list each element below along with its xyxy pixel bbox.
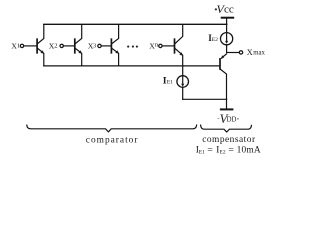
label +Vcc bbox=[215, 8, 217, 10]
base bar Xn bbox=[174, 39, 176, 53]
source circle IE1 bbox=[177, 76, 189, 88]
node input terminal Xn bbox=[159, 44, 162, 47]
wire emitter rail to IE1 bbox=[182, 66, 184, 76]
power +Vcc bar bbox=[222, 17, 234, 19]
wire IE1 to bottom rail bbox=[182, 87, 184, 99]
arrow inside IE2 bbox=[226, 34, 228, 42]
wire bottom rail to -VDD bbox=[183, 98, 227, 100]
wire top collector rail bbox=[44, 23, 227, 25]
svg-text:max: max bbox=[253, 49, 265, 56]
wire +Vcc feed bbox=[226, 19, 228, 33]
transistor Q2 output PNP bbox=[220, 54, 227, 109]
wire common emitter rail bbox=[44, 65, 220, 67]
svg-text:X: X bbox=[247, 48, 253, 57]
collector lead X2 bbox=[75, 25, 81, 44]
brace compensator bbox=[201, 125, 252, 132]
wire base lead X1 bbox=[24, 45, 37, 47]
svg-text:E2: E2 bbox=[212, 37, 218, 43]
emitter lead X2 bbox=[75, 48, 81, 66]
transistor X1 bbox=[20, 25, 44, 66]
svg-text:2: 2 bbox=[54, 42, 57, 49]
node input terminal X3 bbox=[98, 44, 101, 47]
base bar Q2 bbox=[219, 59, 221, 69]
wire base lead Xn bbox=[162, 45, 174, 47]
emitter arrow Xn bbox=[179, 52, 183, 55]
svg-text:10mA: 10mA bbox=[237, 146, 261, 156]
emitter lead X3 bbox=[112, 48, 119, 66]
emitter lead Q2 bbox=[221, 54, 226, 58]
arrow inside IE1 bbox=[182, 77, 184, 85]
svg-text:E1: E1 bbox=[167, 80, 173, 86]
wire base lead X3 bbox=[101, 45, 111, 47]
node input terminal X2 bbox=[60, 44, 63, 47]
collector lead X1 bbox=[38, 25, 44, 44]
svg-text:comparator: comparator bbox=[86, 135, 139, 145]
svg-text:E1: E1 bbox=[199, 150, 205, 156]
transistor X3 bbox=[98, 25, 119, 66]
emitter arrow X3 bbox=[115, 50, 119, 53]
node Xmax terminal bbox=[239, 51, 242, 54]
base bar X1 bbox=[36, 39, 38, 53]
current source IE2 bbox=[221, 19, 233, 53]
emitter lead X1 bbox=[38, 48, 44, 66]
current source IE1 bbox=[177, 66, 189, 99]
svg-text:3: 3 bbox=[93, 42, 96, 49]
wire Xmax output branch bbox=[227, 52, 240, 54]
wire base lead X2 bbox=[63, 45, 74, 47]
emitter arrow X1 bbox=[41, 50, 45, 53]
base bar X2 bbox=[74, 39, 76, 53]
source circle IE2 bbox=[221, 33, 233, 45]
svg-text:cc: cc bbox=[224, 4, 234, 16]
dots ellipsis bbox=[127, 46, 129, 48]
svg-text:=: = bbox=[228, 145, 234, 156]
svg-text:E2: E2 bbox=[220, 150, 226, 156]
node input terminal X1 bbox=[20, 44, 23, 47]
emitter arrow X2 bbox=[78, 50, 82, 53]
power -VDD bar bbox=[221, 108, 233, 110]
wire IE2 output bbox=[226, 45, 228, 53]
collector lead Q2 to -VDD bbox=[221, 69, 227, 108]
svg-text:DD: DD bbox=[227, 116, 237, 123]
svg-text:compensator: compensator bbox=[202, 135, 256, 145]
svg-text:=: = bbox=[207, 145, 213, 156]
transistor X2 bbox=[60, 25, 82, 66]
svg-text:1: 1 bbox=[17, 42, 20, 49]
base bar X3 bbox=[110, 39, 112, 53]
collector lead Xn bbox=[175, 25, 183, 44]
emitter lead Xn bbox=[175, 48, 183, 66]
transistor Xn bbox=[159, 25, 183, 66]
emitter arrow Q2 bbox=[221, 55, 224, 59]
brace comparator bbox=[27, 125, 197, 132]
collector lead X3 bbox=[112, 25, 119, 44]
